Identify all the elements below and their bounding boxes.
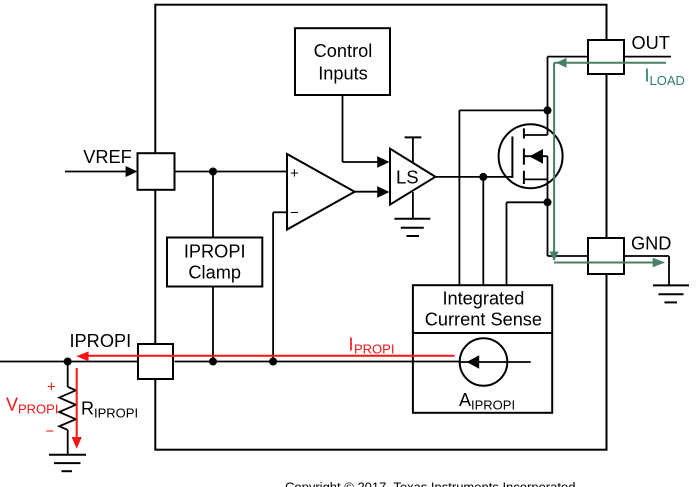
svg-text:−: − [46,423,55,440]
svg-text:+: + [47,379,56,396]
wire IPROPI Clamp down to IPROPI net [212,287,214,362]
svg-text:OUT: OUT [632,33,670,53]
svg-text:LS: LS [396,166,419,187]
ground below resistor [49,455,86,472]
gate driver LS [390,149,435,205]
wire op-amp - input feedback [273,212,287,361]
wire GND to ground [624,256,669,286]
wire LS output to MOSFET gate [435,176,512,178]
op-amp U1 [287,154,355,230]
wire OUT to load [624,56,671,58]
wire I_PROPI red current arrow [76,351,454,361]
svg-text:Integrated: Integrated [442,289,524,309]
box IPROPI Clamp [167,238,262,287]
wire Control Inputs to LS driver [343,95,390,168]
wire gate junction down to current sense [482,177,484,285]
wire VREF input arrow [65,166,138,177]
supply bar above LS [405,137,422,162]
resistor R_IPROPI [59,362,76,455]
pin IPROPI [138,344,173,379]
pin GND [588,234,671,275]
svg-text:IPROPI: IPROPI [94,406,138,421]
wire LS to ground [412,192,414,219]
label R_IPROPI [81,399,138,421]
svg-text:IPROPI: IPROPI [471,398,515,413]
wire I_LOAD green current path [550,58,667,267]
svg-text:Current Sense: Current Sense [425,309,542,329]
node source junction [544,198,552,206]
svg-text:PROPI: PROPI [18,402,58,417]
svg-text:V: V [6,395,18,415]
svg-text:I: I [349,334,354,354]
svg-text:Clamp: Clamp [188,262,241,282]
pin VREF [138,153,175,190]
ground at GND pin [653,285,689,302]
wire source sense to current sense [507,202,548,285]
node resistor junction [64,358,72,366]
svg-text:IPROPI: IPROPI [184,241,246,261]
svg-text:Copyright © 2017, Texas Instru: Copyright © 2017, Texas Instruments Inco… [285,479,575,487]
wire drain to OUT pin [548,57,589,111]
node drain junction [544,106,552,114]
svg-text:GND: GND [631,234,671,254]
wire IPROPI net (left) [0,361,138,363]
wire drain sense to current sense [459,110,547,285]
IC boundary [155,5,606,450]
ground below LS [394,219,430,236]
svg-text:IPROPI: IPROPI [70,331,132,351]
svg-text:PROPI: PROPI [354,341,394,356]
svg-text:A: A [459,390,471,410]
label I_LOAD [645,65,685,88]
svg-text:Inputs: Inputs [318,63,368,83]
pin OUT [588,33,670,74]
box Control Inputs [295,28,390,95]
svg-text:+: + [290,165,299,182]
wire junction down to IPROPI Clamp [212,172,214,238]
node gate junction [479,173,487,181]
svg-text:LOAD: LOAD [650,73,685,88]
node clamp junction [209,358,217,366]
wire VREF to op-amp + input [175,171,288,173]
svg-text:Control: Control [314,41,373,61]
transistor M1 (low-side NMOS) [499,110,563,202]
wire IPROPI net (right) [175,361,460,363]
svg-text:R: R [81,399,94,419]
wire op-amp output to LS driver [355,186,390,197]
node feedback junction [269,358,277,366]
box Integrated Current Sense [413,285,552,413]
current source A_IPROPI [459,338,531,412]
wire V_PROPI red voltage arrow [72,368,82,449]
svg-text:VREF: VREF [83,147,132,167]
label V_PROPI [6,395,58,417]
node VREF junction [209,168,217,176]
svg-text:−: − [290,205,299,222]
wire source to GND pin [548,202,589,256]
label I_PROPI [349,334,395,356]
